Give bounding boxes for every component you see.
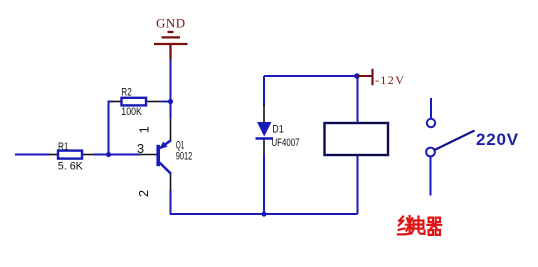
wire (264, 75, 357, 77)
svg-text:D1: D1 (272, 124, 284, 136)
wire (15, 154, 51, 156)
transistor Q1 (140, 119, 171, 191)
wire (93, 154, 140, 156)
svg-text:R2: R2 (121, 86, 132, 98)
svg-text:UF4007: UF4007 (272, 137, 300, 149)
wire (162, 101, 171, 103)
resistor R2 (112, 98, 163, 106)
relay coil box (325, 123, 389, 155)
svg-text:220V: 220V (476, 130, 519, 149)
svg-text:R1: R1 (58, 141, 69, 153)
wire (263, 76, 265, 106)
wire (109, 102, 113, 155)
junction (261, 211, 266, 216)
svg-text:1: 1 (137, 126, 152, 133)
继 (398, 217, 405, 235)
resistor R1 (50, 151, 93, 159)
svg-text:9012: 9012 (176, 150, 193, 162)
器 (427, 218, 441, 235)
ground (154, 32, 188, 60)
label 继电器 (relay) (398, 216, 441, 235)
svg-text:GND: GND (156, 16, 186, 31)
switch contact (relay contacts) (426, 98, 474, 196)
wire (171, 190, 265, 214)
电 (414, 217, 425, 234)
wire (357, 76, 359, 123)
svg-text:-12V: -12V (375, 73, 405, 87)
junction (168, 99, 173, 104)
svg-text:3: 3 (137, 141, 144, 156)
junction (354, 73, 360, 79)
power -12V (358, 69, 373, 85)
wire (264, 213, 358, 215)
junction (106, 152, 111, 157)
diode D1 (256, 104, 274, 155)
wire (357, 155, 359, 214)
svg-text:2: 2 (136, 190, 151, 197)
svg-text:100K: 100K (121, 106, 142, 118)
svg-text:5. 6K: 5. 6K (58, 161, 84, 173)
wire (170, 59, 172, 119)
wire (263, 154, 265, 214)
